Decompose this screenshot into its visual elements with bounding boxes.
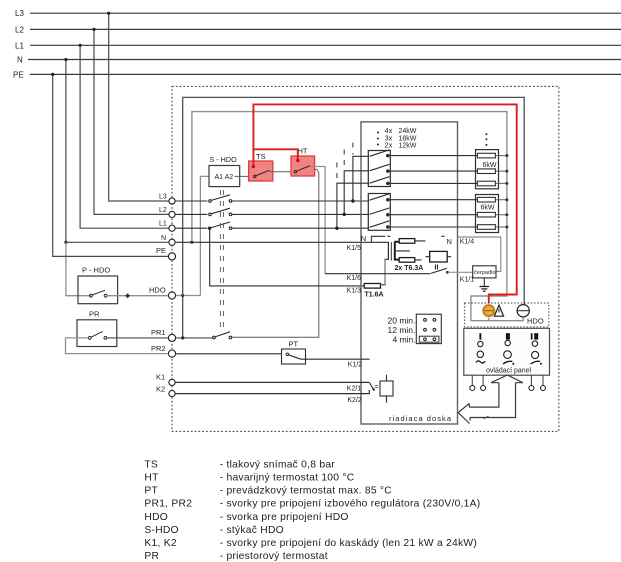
svg-text:ovládací panel: ovládací panel xyxy=(486,368,532,375)
heating element R6 xyxy=(477,225,495,230)
panel symbol III xyxy=(531,333,533,339)
svg-text:K1/6: K1/6 xyxy=(347,275,362,282)
junction PE bus xyxy=(51,73,54,76)
control panel box xyxy=(464,328,550,375)
lower contactor pole 3 xyxy=(370,221,390,228)
bus line L2 xyxy=(30,28,621,30)
jumper block box xyxy=(416,314,441,343)
red safety wire xyxy=(253,104,516,303)
room thermostat box PR xyxy=(77,320,117,347)
squiggle sym 1 xyxy=(476,361,485,363)
terminal K1 xyxy=(169,379,175,385)
red node TS xyxy=(252,165,256,169)
svg-text:L1: L1 xyxy=(159,221,167,228)
wire N terminal line xyxy=(175,242,388,284)
svg-text:K1/1: K1/1 xyxy=(460,276,475,283)
wire N drop to P-HDO box xyxy=(66,242,91,295)
bus line N xyxy=(28,59,621,61)
S-HDO linkage dashed xyxy=(220,190,223,333)
fuse output stubs xyxy=(396,241,425,260)
wire lamp bottom tap xyxy=(488,318,490,321)
svg-text:2x: 2x xyxy=(385,143,393,150)
boiler enclosure dashed box xyxy=(172,86,559,431)
bus line L1 xyxy=(30,44,621,46)
squiggle sym 3 xyxy=(531,361,540,364)
svg-text:K2/1: K2/1 xyxy=(347,385,362,392)
junction HDO lamp tap xyxy=(181,294,184,297)
svg-text:S - HDO: S - HDO xyxy=(210,155,238,164)
terminal L1 xyxy=(169,225,175,231)
fuse F2 of 2x T6.3A xyxy=(399,258,415,263)
wire HDO indicator feed (up over top to right) xyxy=(183,97,525,338)
wire PR2 to PT xyxy=(176,353,282,355)
svg-text:PR2: PR2 xyxy=(151,344,166,353)
upper contactor pole 1 xyxy=(370,150,390,157)
S-HDO main contact L3 xyxy=(209,195,232,203)
receiver box P-HDO xyxy=(78,276,118,304)
ground symbol xyxy=(480,287,490,292)
heating element R5 xyxy=(477,212,495,217)
junction N riser xyxy=(190,241,193,244)
wire PR loop to PR2 xyxy=(66,338,169,354)
wire phase L1 to contactor xyxy=(175,227,369,229)
control board box riadiaca doska xyxy=(361,122,458,424)
switch in TS xyxy=(254,170,270,177)
junction N drop continues xyxy=(64,241,67,244)
connector box II xyxy=(430,251,448,262)
bus line L3 xyxy=(30,12,621,14)
panel knobs row xyxy=(477,351,483,357)
riser L3 to upper contactor xyxy=(353,156,369,201)
svg-text:K2: K2 xyxy=(156,384,165,393)
svg-text:24kW: 24kW xyxy=(399,128,417,135)
svg-text:K1: K1 xyxy=(156,372,165,381)
svg-text:K1/5: K1/5 xyxy=(347,245,362,252)
ellipsis dots above elements xyxy=(485,133,487,135)
panel symbol I xyxy=(479,333,481,339)
panel symbol II xyxy=(506,333,510,339)
upper contactor pole 2 xyxy=(370,164,390,172)
svg-text:PT: PT xyxy=(144,486,158,497)
svg-text:20 min.: 20 min. xyxy=(388,315,416,325)
svg-text:PE: PE xyxy=(156,246,166,255)
svg-text:PT: PT xyxy=(289,340,299,349)
svg-text:N: N xyxy=(17,56,23,65)
svg-text:PR1: PR1 xyxy=(151,328,166,337)
wire drop L1 to terminal xyxy=(80,45,169,228)
jumper pins row 4min with jumper installed xyxy=(419,336,439,342)
N bracket dashed left xyxy=(371,236,444,242)
upper contactor pole 3 xyxy=(370,177,390,185)
riser L1 to upper contactor xyxy=(337,183,369,228)
terminal PR2 xyxy=(168,350,175,357)
fuse block plug lines xyxy=(390,242,392,261)
junction L1 to K1/3 tap xyxy=(208,227,211,230)
svg-text:PR: PR xyxy=(89,310,100,319)
svg-text:K1/4: K1/4 xyxy=(460,238,475,245)
svg-text:- havarijný termostat 100 °C: - havarijný termostat 100 °C xyxy=(220,473,355,484)
svg-text:- svorky pre pripojení do kask: - svorky pre pripojení do kaskády (len 2… xyxy=(220,538,477,549)
svg-text:S-HDO: S-HDO xyxy=(144,525,178,536)
wire N distribution (up over top to right) xyxy=(192,112,523,321)
switch in PR xyxy=(88,331,107,339)
wire PR output to PR1 xyxy=(107,337,168,339)
svg-text:4 min.: 4 min. xyxy=(393,334,416,344)
wire pump to ground xyxy=(483,278,485,286)
wire TS to HT xyxy=(270,171,296,173)
svg-text:2x T6.3A: 2x T6.3A xyxy=(395,265,424,272)
heating element R3 xyxy=(477,181,495,186)
svg-text:N: N xyxy=(447,237,452,246)
warning triangle xyxy=(494,305,503,316)
fuse F1 of 2x T6.3A xyxy=(399,239,415,244)
junction L2 bus xyxy=(92,28,95,31)
upper contactor box xyxy=(368,151,390,187)
wire drop PE to terminal xyxy=(53,74,169,256)
wire K1/4 to pump right xyxy=(458,237,501,271)
svg-text:HDO: HDO xyxy=(149,285,166,294)
junction riser L2 xyxy=(343,213,346,216)
lower element group box xyxy=(476,195,499,233)
heating element R1 xyxy=(477,153,495,158)
svg-text:N: N xyxy=(161,235,166,242)
riser L2 to upper contactor xyxy=(344,171,369,215)
jumper pins row 12min xyxy=(424,328,427,331)
bus line PE xyxy=(30,73,621,75)
svg-text:4x: 4x xyxy=(385,128,393,135)
terminal L2 xyxy=(169,211,175,217)
svg-text:6kW: 6kW xyxy=(483,162,497,169)
terminal K2 xyxy=(169,391,175,397)
wire HT output to K1/6 drop xyxy=(310,167,325,274)
svg-text:N: N xyxy=(361,234,366,243)
wire A2 to TS xyxy=(235,175,255,177)
hollow arrow up into panel xyxy=(469,375,523,418)
jumper pins row 20min xyxy=(424,319,427,322)
wire PT output K1/2 xyxy=(301,358,370,360)
svg-text:L1: L1 xyxy=(15,41,24,50)
contactor coil S-HDO xyxy=(209,166,240,187)
svg-text:TS: TS xyxy=(144,459,158,470)
upper element group box xyxy=(476,150,499,189)
svg-text:K2/2: K2/2 xyxy=(347,397,362,404)
emergency thermostat HT xyxy=(291,156,315,176)
S-HDO main contact L1 xyxy=(211,222,232,230)
lower contactor pole 2 xyxy=(370,208,390,216)
squiggle sym 2 xyxy=(503,361,512,364)
svg-text:L3: L3 xyxy=(159,194,167,201)
wire HDO terminal line xyxy=(176,295,200,297)
svg-text:K1/2: K1/2 xyxy=(348,362,363,369)
wire PR1 terminal to aux contact xyxy=(176,337,214,339)
junction riser L3 xyxy=(351,199,354,202)
svg-text:PR1, PR2: PR1, PR2 xyxy=(144,499,192,510)
svg-text:HT: HT xyxy=(144,473,159,484)
fuse T1.6A xyxy=(364,284,380,289)
element N stubs and junctions xyxy=(495,156,507,227)
svg-text:HDO: HDO xyxy=(144,512,168,523)
svg-text:L2: L2 xyxy=(159,207,167,214)
wire phase L2 to contactor xyxy=(175,213,369,215)
switch in P-HDO xyxy=(90,290,107,297)
terminal PE xyxy=(168,253,175,260)
junction diamond on HDO wire xyxy=(125,293,130,298)
lower contactor box xyxy=(368,194,390,231)
terminal L3 xyxy=(169,198,175,204)
HDO indicator lamp xyxy=(517,305,529,317)
svg-text:- priestorový termostat: - priestorový termostat xyxy=(220,551,328,562)
wire K1 terminal to K2/1 xyxy=(175,381,369,383)
svg-text:riadiaca doska: riadiaca doska xyxy=(389,414,452,423)
wire K1/3 from L1 tap xyxy=(210,228,365,286)
terminal PR1 xyxy=(168,334,175,341)
wire phase L3 to contactor xyxy=(175,200,369,202)
dashed continuation risers xyxy=(337,143,353,182)
panel terminal circles xyxy=(470,386,475,391)
panel leds row xyxy=(478,341,483,346)
wires lower contactor to elements xyxy=(389,200,477,227)
svg-text:18kW: 18kW xyxy=(399,135,417,142)
wire switch to pump xyxy=(447,271,472,273)
junction riser L1 xyxy=(335,227,338,230)
junction N bus xyxy=(64,58,67,61)
wire P-HDO output to HDO terminal xyxy=(107,295,168,297)
svg-text:L3: L3 xyxy=(15,9,24,18)
relay coil K xyxy=(380,381,393,396)
panel terminal stubs xyxy=(472,375,543,385)
svg-text:K1/3: K1/3 xyxy=(347,288,362,295)
svg-text:K1, K2: K1, K2 xyxy=(144,538,176,549)
warning lamp orange xyxy=(483,305,494,316)
svg-text:- svorky pre pripojení izbovéh: - svorky pre pripojení izbového reguláto… xyxy=(220,499,481,510)
lower contactor pole 1 xyxy=(370,194,390,201)
relay contact blade K2 xyxy=(369,382,373,389)
operating thermostat PT xyxy=(282,349,306,364)
heating element R4 xyxy=(477,197,495,202)
svg-text:6kW: 6kW xyxy=(481,205,495,212)
svg-text:II: II xyxy=(435,265,439,272)
junction PR1 tap xyxy=(181,336,184,339)
svg-text:čerpadlo: čerpadlo xyxy=(474,270,495,276)
svg-text:P - HDO: P - HDO xyxy=(82,266,110,275)
svg-text:T1.6A: T1.6A xyxy=(365,292,384,299)
ellipsis dots left of variants xyxy=(377,132,379,134)
tick on arrow shaft xyxy=(484,416,489,418)
svg-text:=: = xyxy=(375,384,379,391)
pump box cerpadlo xyxy=(473,266,496,278)
indicator dashed box xyxy=(465,303,549,327)
wire HT branch to aux contact drop xyxy=(231,169,319,337)
svg-text:3x: 3x xyxy=(385,135,393,142)
heating element R2 xyxy=(477,169,495,174)
svg-text:TS: TS xyxy=(256,152,266,161)
wire A1 drop xyxy=(200,176,209,295)
switch K1/1 pump xyxy=(431,268,447,273)
wire drop L3 to terminal xyxy=(109,13,169,201)
wire K2 terminal to K2/2 xyxy=(175,390,369,394)
junction L1 bus xyxy=(79,44,82,47)
terminal HDO xyxy=(168,292,175,299)
pressure switch TS xyxy=(249,161,273,181)
red node HT xyxy=(296,159,300,163)
wire N jog to fuse T1.6A xyxy=(384,259,386,285)
wires upper contactor to elements xyxy=(389,156,477,184)
svg-text:HDO: HDO xyxy=(527,316,544,325)
wire drop N to terminal xyxy=(66,60,169,243)
svg-text:- tlakový snímač 0,8 bar: - tlakový snímač 0,8 bar xyxy=(220,459,336,470)
svg-text:PE: PE xyxy=(13,70,24,79)
S-HDO main contact L2 xyxy=(209,208,232,216)
S-HDO aux contact on PR1 line xyxy=(213,332,232,339)
svg-text:A1 A2: A1 A2 xyxy=(215,174,234,181)
hollow arrow left into board xyxy=(458,404,470,424)
switch in PT xyxy=(286,353,301,359)
svg-text:- prevádzkový termostat max. 8: - prevádzkový termostat max. 85 °C xyxy=(220,486,393,497)
terminal N xyxy=(169,239,175,245)
svg-text:L2: L2 xyxy=(15,25,24,34)
svg-text:HT: HT xyxy=(298,147,308,156)
wire K1/6 line xyxy=(325,273,430,275)
svg-text:PR: PR xyxy=(144,551,159,562)
switch in HT xyxy=(294,166,310,173)
svg-text:- svorka pre pripojení HDO: - svorka pre pripojení HDO xyxy=(220,512,349,523)
svg-text:- stýkač HDO: - stýkač HDO xyxy=(220,525,284,536)
wire drop L2 to terminal xyxy=(94,29,169,214)
junction L3 bus xyxy=(107,12,110,15)
svg-text:12kW: 12kW xyxy=(399,143,417,150)
